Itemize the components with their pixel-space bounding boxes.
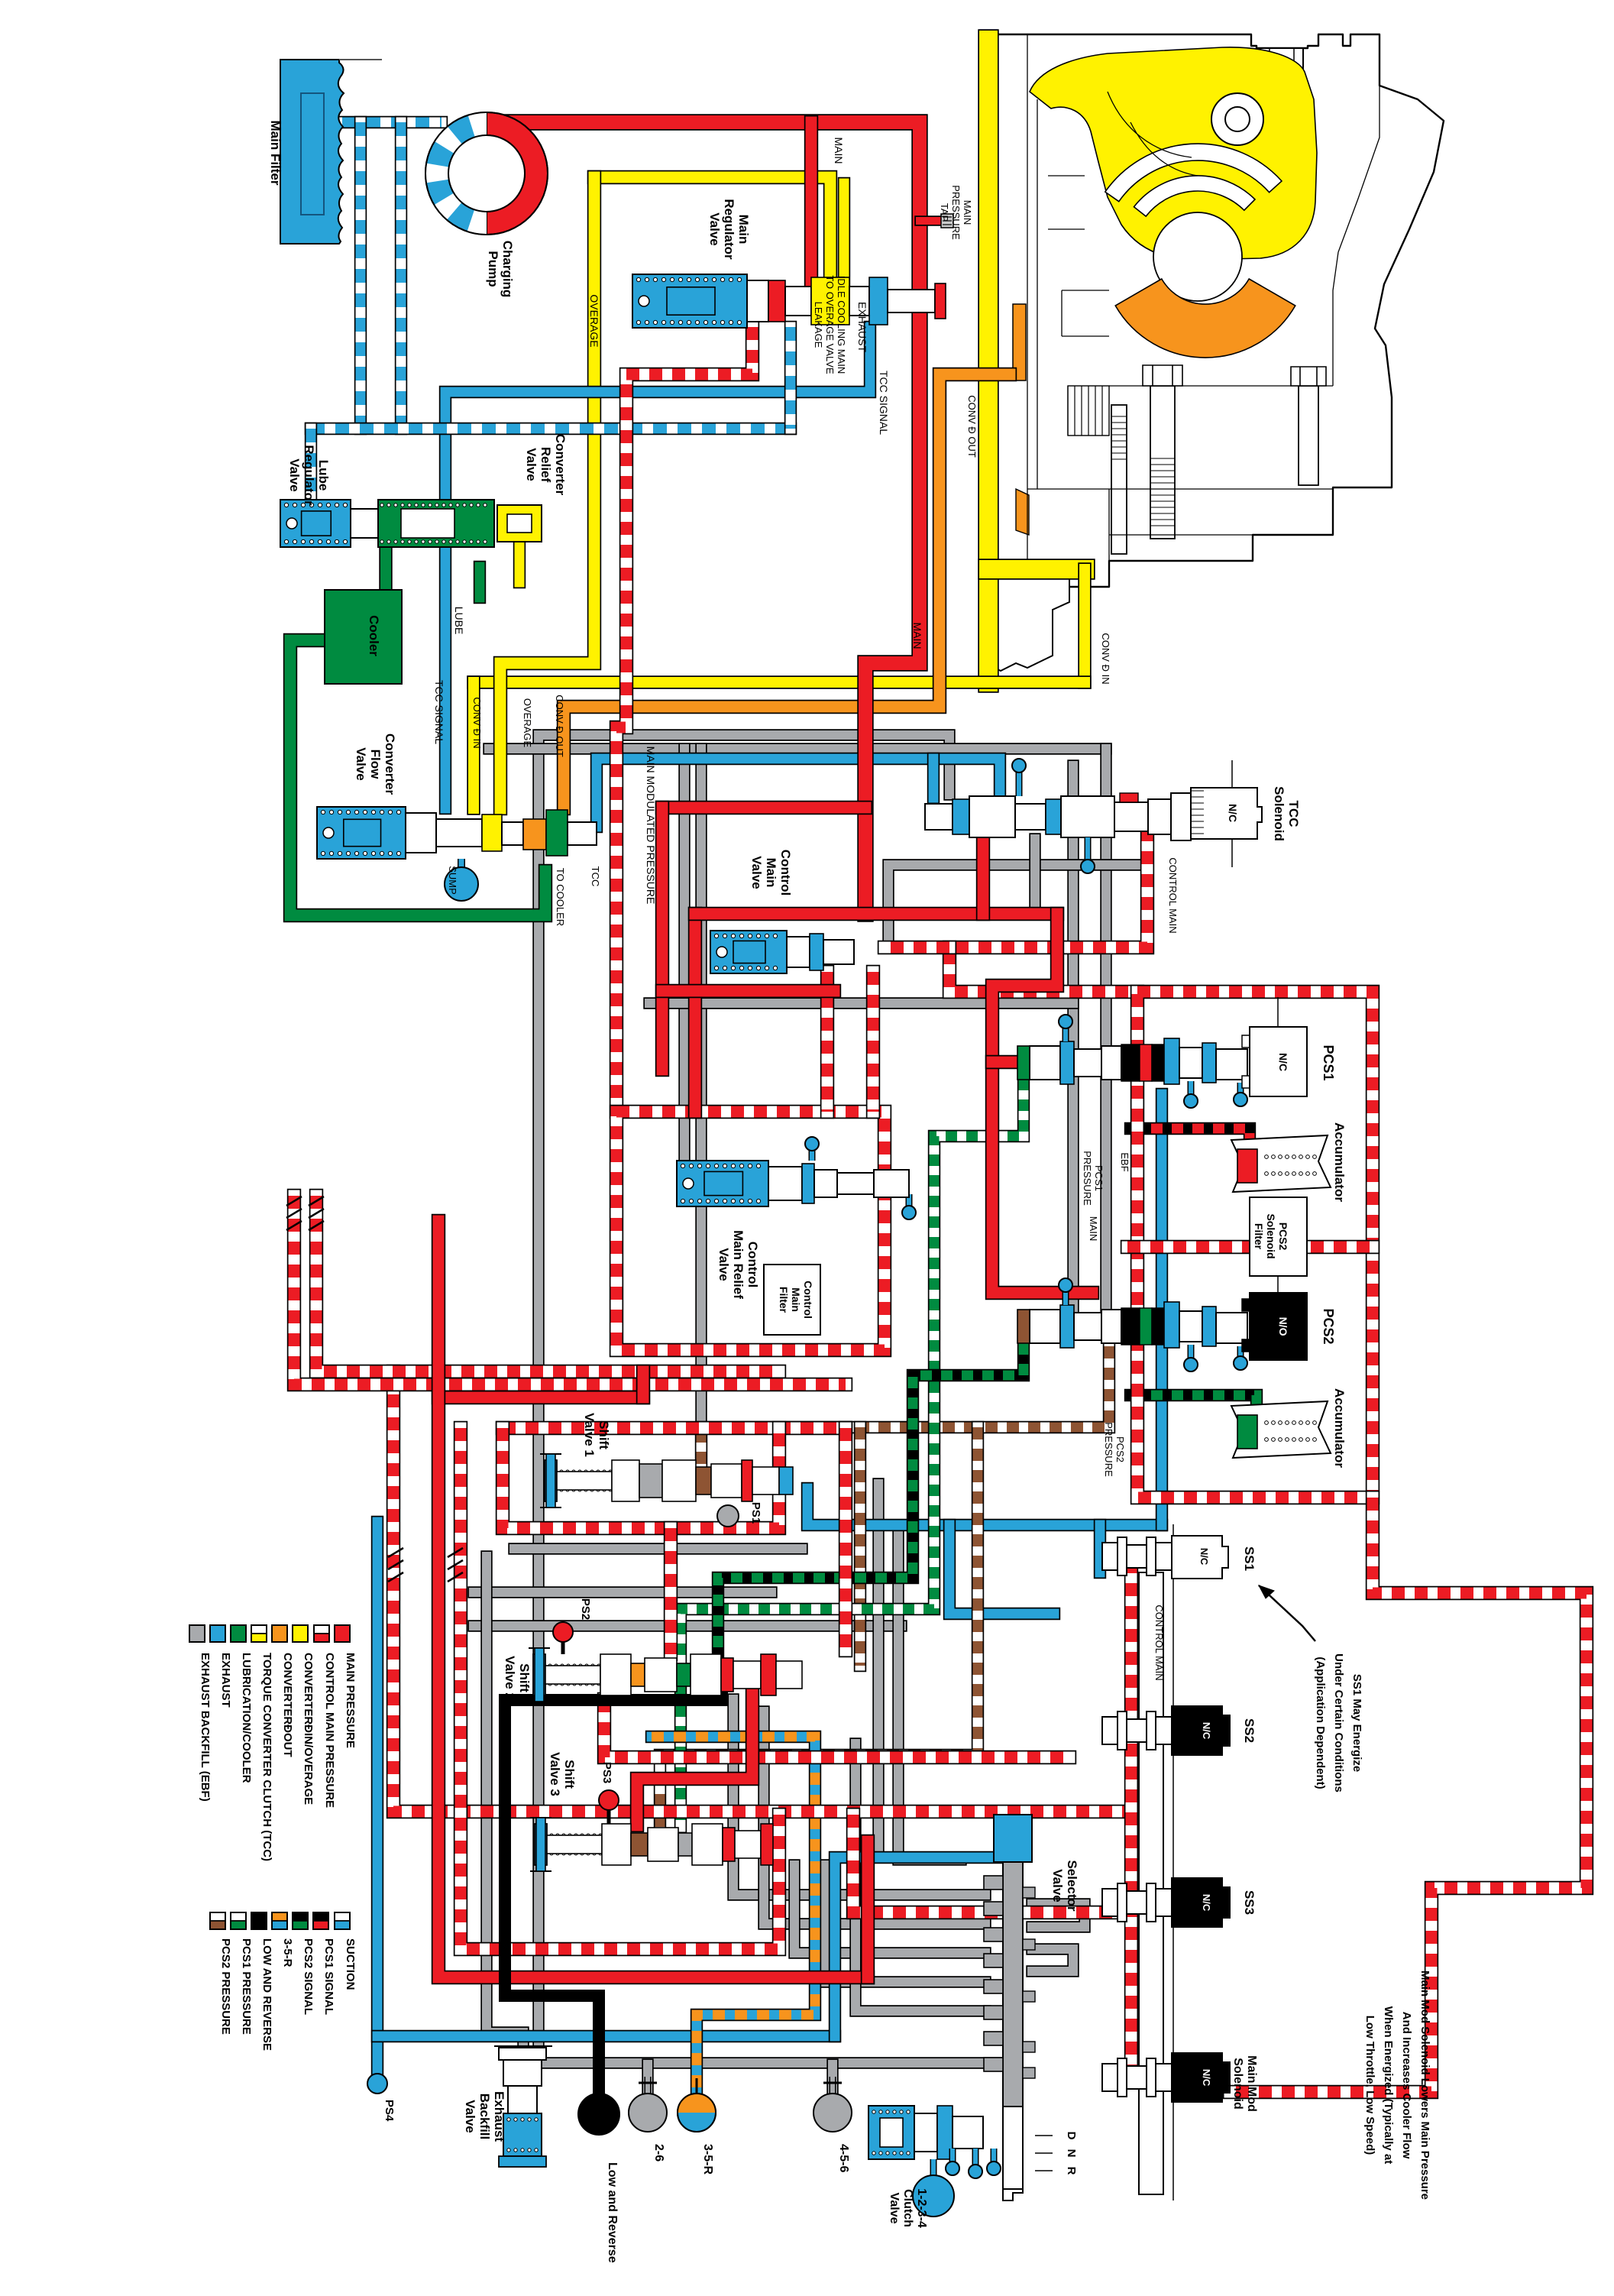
svg-text:Main Filter: Main Filter bbox=[268, 120, 283, 185]
svg-text:TO OVERAGE VALVE: TO OVERAGE VALVE bbox=[824, 275, 836, 374]
svg-text:PCS2: PCS2 bbox=[1277, 1222, 1289, 1251]
svg-text:4-5-6: 4-5-6 bbox=[837, 2144, 850, 2172]
svg-text:LUBE: LUBE bbox=[453, 607, 465, 635]
svg-text:EXHAUST: EXHAUST bbox=[856, 302, 868, 353]
svg-text:Low Throttle, Low Speed): Low Throttle, Low Speed) bbox=[1363, 2016, 1376, 2155]
svg-text:CONTROL MAIN: CONTROL MAIN bbox=[1153, 1605, 1165, 1680]
svg-text:OVERAGE: OVERAGE bbox=[522, 698, 533, 748]
svg-text:Backfill: Backfill bbox=[477, 2094, 492, 2139]
svg-text:MAIN: MAIN bbox=[833, 138, 845, 164]
svg-text:CONTROL MAIN PRESSURE: CONTROL MAIN PRESSURE bbox=[323, 1653, 336, 1808]
svg-text:Control: Control bbox=[802, 1281, 814, 1319]
svg-text:PS3: PS3 bbox=[600, 1762, 613, 1783]
svg-text:LUBRICATION/COOLER: LUBRICATION/COOLER bbox=[240, 1653, 253, 1783]
svg-text:PCS2: PCS2 bbox=[1321, 1308, 1336, 1344]
svg-text:Shift: Shift bbox=[597, 1420, 611, 1449]
svg-text:Filter: Filter bbox=[1253, 1223, 1265, 1250]
svg-text:Lube: Lube bbox=[316, 460, 331, 491]
svg-text:SUMP: SUMP bbox=[447, 866, 458, 895]
svg-text:Shift: Shift bbox=[517, 1663, 532, 1692]
svg-text:Under Certain Conditions: Under Certain Conditions bbox=[1332, 1653, 1345, 1792]
svg-text:LEAKAGE: LEAKAGE bbox=[813, 302, 824, 348]
svg-text:Valve 2: Valve 2 bbox=[503, 1656, 517, 1700]
svg-text:Low and Reverse: Low and Reverse bbox=[606, 2162, 619, 2263]
svg-text:PS4: PS4 bbox=[383, 2100, 396, 2122]
svg-text:Exhaust: Exhaust bbox=[492, 2091, 506, 2142]
svg-text:Control: Control bbox=[746, 1242, 760, 1287]
svg-text:OVERAGE: OVERAGE bbox=[588, 294, 600, 347]
svg-text:Valve: Valve bbox=[524, 448, 539, 481]
svg-text:N/C: N/C bbox=[1201, 1894, 1212, 1912]
svg-text:Solenoid: Solenoid bbox=[1231, 2058, 1244, 2110]
svg-text:Regulator: Regulator bbox=[722, 199, 736, 260]
svg-text:Relief: Relief bbox=[539, 447, 553, 483]
svg-text:Filter: Filter bbox=[778, 1287, 790, 1313]
svg-text:(Application Dependent): (Application Dependent) bbox=[1314, 1656, 1327, 1789]
svg-text:Main Mod: Main Mod bbox=[1245, 2055, 1258, 2112]
svg-text:When Energized (Typically at: When Energized (Typically at bbox=[1382, 2006, 1395, 2164]
svg-text:Cooler: Cooler bbox=[367, 615, 381, 656]
svg-text:Accumulator: Accumulator bbox=[1332, 1122, 1347, 1202]
svg-text:SS1 May Energize: SS1 May Energize bbox=[1350, 1674, 1363, 1772]
svg-text:Control: Control bbox=[778, 850, 793, 895]
svg-text:CONVERTERĐOUT: CONVERTERĐOUT bbox=[281, 1653, 294, 1757]
svg-text:EBF: EBF bbox=[1119, 1152, 1130, 1171]
svg-text:PS1: PS1 bbox=[749, 1502, 762, 1524]
svg-text:Pump: Pump bbox=[486, 251, 500, 287]
svg-text:MAIN: MAIN bbox=[1088, 1216, 1099, 1242]
svg-text:Shift: Shift bbox=[562, 1760, 577, 1789]
svg-text:Valve: Valve bbox=[707, 212, 722, 246]
svg-text:Main: Main bbox=[764, 858, 778, 888]
svg-text:3-5-R: 3-5-R bbox=[701, 2144, 714, 2175]
svg-text:PRESSURE: PRESSURE bbox=[1082, 1151, 1093, 1206]
svg-text:CONV Đ OUT: CONV Đ OUT bbox=[966, 395, 978, 458]
svg-text:TO COOLER: TO COOLER bbox=[555, 868, 566, 926]
svg-text:TAP: TAP bbox=[939, 203, 950, 222]
svg-text:TCC SIGNAL: TCC SIGNAL bbox=[433, 680, 445, 744]
svg-text:R: R bbox=[1065, 2167, 1078, 2175]
svg-text:CONV Đ IN: CONV Đ IN bbox=[1100, 633, 1111, 684]
svg-text:Regulator: Regulator bbox=[302, 445, 316, 506]
svg-text:Accumulator: Accumulator bbox=[1332, 1388, 1347, 1468]
svg-text:Valve: Valve bbox=[287, 458, 302, 492]
svg-text:N/C: N/C bbox=[1201, 2069, 1212, 2087]
svg-text:LOW AND REVERSE: LOW AND REVERSE bbox=[260, 1938, 273, 2051]
svg-text:EXHAUST: EXHAUST bbox=[219, 1653, 232, 1708]
svg-text:3-5-R: 3-5-R bbox=[281, 1938, 294, 1967]
svg-text:Main Relief: Main Relief bbox=[731, 1230, 746, 1299]
svg-text:CONV Đ IN: CONV Đ IN bbox=[471, 697, 483, 748]
svg-text:Solenoid: Solenoid bbox=[1265, 1213, 1277, 1258]
svg-text:CONVERTERĐIN/OVERAGE: CONVERTERĐIN/OVERAGE bbox=[302, 1653, 315, 1805]
svg-text:IDLE COOLING MAIN: IDLE COOLING MAIN bbox=[836, 276, 847, 374]
svg-text:EXHAUST BACKFILL (EBF): EXHAUST BACKFILL (EBF) bbox=[199, 1653, 212, 1802]
svg-text:Valve: Valve bbox=[888, 2193, 901, 2224]
svg-text:PCS2: PCS2 bbox=[1114, 1436, 1126, 1462]
svg-text:TCC SIGNAL: TCC SIGNAL bbox=[878, 371, 890, 435]
svg-text:MAIN: MAIN bbox=[911, 623, 923, 649]
svg-text:Valve: Valve bbox=[1050, 1869, 1065, 1903]
svg-text:Valve: Valve bbox=[716, 1248, 731, 1281]
svg-text:N: N bbox=[1065, 2149, 1078, 2158]
svg-text:Main: Main bbox=[790, 1287, 802, 1312]
svg-text:Valve: Valve bbox=[749, 856, 764, 889]
svg-text:Converter: Converter bbox=[383, 733, 397, 795]
svg-text:SS2: SS2 bbox=[1242, 1718, 1257, 1743]
svg-text:Charging: Charging bbox=[500, 241, 515, 298]
svg-text:MAIN MODULATED PRESSURE: MAIN MODULATED PRESSURE bbox=[645, 746, 657, 905]
svg-text:N/C: N/C bbox=[1277, 1053, 1289, 1071]
svg-text:D: D bbox=[1065, 2132, 1078, 2140]
svg-text:CONTROL MAIN: CONTROL MAIN bbox=[1167, 857, 1179, 933]
svg-text:PRESSURE: PRESSURE bbox=[950, 185, 962, 240]
svg-text:PCS2 SIGNAL: PCS2 SIGNAL bbox=[302, 1938, 315, 2015]
svg-text:TCC: TCC bbox=[1286, 801, 1301, 827]
svg-text:SS1: SS1 bbox=[1242, 1546, 1257, 1571]
svg-text:PCS2 PRESSURE: PCS2 PRESSURE bbox=[219, 1938, 232, 2035]
svg-text:Main Mod Solenoid Lowers Main: Main Mod Solenoid Lowers Main Pressure bbox=[1418, 1971, 1431, 2200]
svg-text:1-2-3-4: 1-2-3-4 bbox=[915, 2188, 928, 2228]
svg-text:2-6: 2-6 bbox=[652, 2144, 665, 2162]
svg-text:SUCTION: SUCTION bbox=[344, 1938, 357, 1990]
svg-text:Flow: Flow bbox=[368, 750, 383, 779]
svg-text:Selector: Selector bbox=[1065, 1860, 1079, 1911]
svg-text:N/C: N/C bbox=[1227, 804, 1239, 822]
svg-text:TCC: TCC bbox=[590, 866, 601, 887]
svg-text:PCS1: PCS1 bbox=[1093, 1165, 1105, 1191]
svg-text:Converter: Converter bbox=[553, 434, 568, 496]
svg-text:Valve 3: Valve 3 bbox=[548, 1752, 562, 1796]
svg-text:N/C: N/C bbox=[1198, 1548, 1210, 1566]
svg-text:MAIN: MAIN bbox=[962, 200, 973, 225]
svg-text:Clutch: Clutch bbox=[901, 2189, 914, 2227]
svg-text:MAIN PRESSURE: MAIN PRESSURE bbox=[344, 1653, 357, 1748]
svg-text:TORQUE CONVERTER CLUTCH (TCC): TORQUE CONVERTER CLUTCH (TCC) bbox=[260, 1653, 273, 1861]
svg-text:PCS1 SIGNAL: PCS1 SIGNAL bbox=[322, 1938, 335, 2015]
svg-text:N/O: N/O bbox=[1277, 1317, 1289, 1336]
svg-text:Valve 1: Valve 1 bbox=[582, 1413, 597, 1457]
svg-text:Valve: Valve bbox=[463, 2100, 477, 2133]
svg-text:Main: Main bbox=[736, 215, 751, 244]
svg-text:SS3: SS3 bbox=[1242, 1890, 1257, 1915]
svg-text:PS2: PS2 bbox=[579, 1598, 592, 1620]
svg-text:CONV Đ OUT: CONV Đ OUT bbox=[554, 695, 565, 757]
svg-text:PRESSURE: PRESSURE bbox=[1103, 1422, 1114, 1477]
svg-text:PCS1 PRESSURE: PCS1 PRESSURE bbox=[240, 1938, 253, 2035]
svg-text:N/C: N/C bbox=[1201, 1722, 1212, 1740]
svg-text:PCS1: PCS1 bbox=[1321, 1044, 1336, 1080]
svg-text:Valve: Valve bbox=[354, 747, 368, 781]
svg-text:And Increases Cooler Flow: And Increases Cooler Flow bbox=[1400, 2012, 1413, 2159]
svg-text:Solenoid: Solenoid bbox=[1272, 786, 1286, 841]
